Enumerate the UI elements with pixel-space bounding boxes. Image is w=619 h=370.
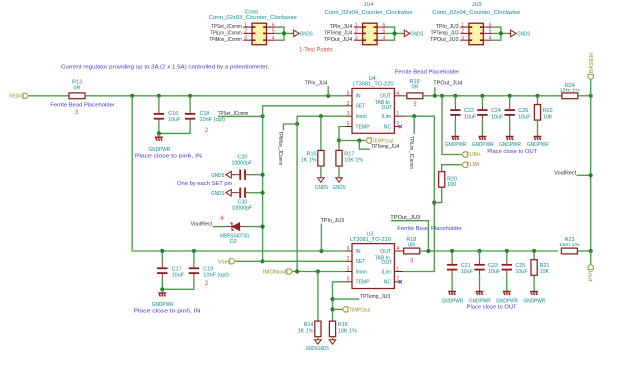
junction C19 tap: [192, 249, 196, 253]
JU3 pin 4 stub: [483, 39, 491, 41]
junction TEMP2out: [330, 307, 334, 311]
junction TPIn_JU4: [326, 94, 330, 98]
svg-text:TPiMon_JComm: TPiMon_JComm: [277, 131, 283, 165]
capacitor C26: [505, 106, 515, 120]
svg-text:TEMP: TEMP: [356, 280, 371, 286]
svg-text:4: 4: [220, 215, 224, 222]
svg-text:10K 1%: 10K 1%: [344, 158, 363, 164]
wire OUT rail bottom: [420, 250, 558, 252]
junction Imon chain top: [295, 122, 299, 126]
JU4 pin 6 stub: [377, 26, 385, 28]
wire C23 bottom: [479, 274, 481, 291]
power symbol GNDPWR (C25): [503, 292, 511, 296]
power symbol GNDPWR (pin6 IN, U3): [158, 293, 166, 297]
wire TPTemp_JU4: [359, 141, 370, 150]
U3 pin 4 stub: [394, 250, 403, 252]
JU3 pin 6 stub: [483, 26, 491, 28]
svg-text:IN: IN: [356, 94, 361, 100]
svg-text:Conn_02x03_Counter_Clockwise: Conn_02x03_Counter_Clockwise: [209, 15, 297, 21]
svg-text:C23: C23: [488, 263, 498, 269]
U4 pin 5 stub: [345, 126, 352, 128]
JU4 GNDS flag stub: [402, 32, 405, 34]
svg-text:0R: 0R: [408, 243, 415, 249]
connector JComm1 body: [252, 23, 267, 45]
svg-text:GNDPWR: GNDPWR: [442, 298, 464, 304]
junction SET net: [261, 114, 265, 118]
junction C17 tap: [160, 249, 164, 253]
U4 pin 4 stub: [394, 95, 403, 97]
junction TPOut_JU4: [433, 94, 437, 98]
svg-text:2: 2: [205, 280, 209, 287]
global label BASEIn flag: [588, 74, 593, 80]
JU3 pin 5 stub: [483, 32, 491, 34]
svg-text:Ferrite Bead Placeholder: Ferrite Bead Placeholder: [50, 102, 115, 108]
svg-text:1-Test Points: 1-Test Points: [299, 47, 333, 54]
GNDS flag of JComm1: [294, 30, 300, 37]
svg-text:Conn_02x04_Counter_Clockwise: Conn_02x04_Counter_Clockwise: [325, 10, 413, 16]
capacitor C21: [447, 260, 457, 274]
wire C21 bottom: [451, 274, 453, 291]
svg-text:Place close to pin6, IN: Place close to pin6, IN: [135, 153, 202, 159]
svg-text:2: 2: [244, 29, 247, 35]
svg-text:GNDS: GNDS: [306, 346, 318, 352]
capacitor C30: [236, 188, 250, 198]
JComm1 pin 6 stub: [267, 26, 275, 28]
U4 pin 3 stub: [345, 115, 352, 117]
resistor R21: [531, 260, 537, 276]
junction C16-C18 gnd: [157, 131, 161, 135]
GNDS flag at C30: [226, 189, 232, 196]
svg-text:GNDPWR: GNDPWR: [524, 298, 546, 304]
power symbol GNDPWR (pin6 IN, U4): [155, 137, 163, 141]
wire R16 to GNDS: [332, 337, 334, 340]
wire U4 SET vertical chain: [263, 106, 345, 261]
svg-text:Current regulator providing up: Current regulator providing up to 3A (2 …: [61, 64, 269, 70]
svg-text:R16: R16: [338, 322, 348, 328]
svg-text:BASEIn: BASEIn: [589, 53, 595, 74]
svg-text:10uF: 10uF: [172, 272, 185, 278]
svg-text:GNDPWR: GNDPWR: [469, 298, 491, 304]
junction C22 tap: [453, 94, 457, 98]
junction Iout node: [589, 249, 593, 253]
svg-text:2: 2: [347, 101, 350, 107]
svg-text:NC: NC: [384, 124, 392, 130]
svg-text:10uF: 10uF: [488, 269, 501, 275]
JComm1 pin 3 stub: [243, 39, 252, 41]
svg-text:6: 6: [383, 22, 386, 28]
junction C16 tap: [157, 94, 161, 98]
svg-text:Place close to pin6, IN: Place close to pin6, IN: [134, 309, 201, 315]
global label TEMP2out flag: [342, 307, 348, 312]
svg-text:TPIn_JU3: TPIn_JU3: [436, 24, 459, 30]
svg-text:LT3081_TO-220: LT3081_TO-220: [350, 237, 391, 243]
svg-text:TPTemp_JU4: TPTemp_JU4: [371, 144, 399, 150]
wire C22 bottom: [454, 119, 456, 136]
svg-text:C20: C20: [237, 154, 247, 160]
svg-text:TPiLim_JComm: TPiLim_JComm: [210, 30, 242, 36]
svg-text:C22: C22: [464, 108, 474, 114]
svg-text:R22: R22: [543, 108, 553, 114]
junction left vertical: [130, 94, 134, 98]
wire TEMP2out: [333, 308, 342, 310]
svg-text:VoutRect: VoutRect: [554, 170, 576, 176]
resistor R14: [315, 321, 321, 337]
svg-text:10uF: 10uF: [464, 114, 477, 120]
svg-text:Place close to OUT: Place close to OUT: [487, 149, 538, 155]
wire SET row U3: [263, 260, 345, 262]
U3 pin 6 stub: [345, 250, 352, 252]
junction C30: [261, 191, 265, 195]
wire JU3 pins 6-4 join: [492, 27, 501, 40]
U4 pin 7 stub: [394, 126, 399, 128]
svg-text:100: 100: [447, 182, 456, 188]
svg-text:C26: C26: [518, 108, 528, 114]
svg-text:10uF: 10uF: [491, 114, 504, 120]
junction C18 tap: [188, 94, 192, 98]
wire JU4 pins 6-4 join: [385, 27, 394, 40]
junction JU4 GNDS net: [393, 31, 397, 35]
svg-text:10uF: 10uF: [461, 269, 474, 275]
wire JU4 pin5 to GNDS: [385, 32, 402, 34]
capacitor C25: [502, 260, 512, 274]
svg-text:GNDS: GNDS: [300, 31, 313, 37]
power symbol GNDPWR (C21): [448, 292, 456, 296]
wire C17 bottom: [161, 277, 163, 289]
wire VoutRect to D2: [213, 226, 226, 228]
svg-text:0R: 0R: [411, 85, 418, 91]
junction C24 tap: [480, 94, 484, 98]
svg-text:1K 1%: 1K 1%: [301, 158, 317, 164]
svg-text:3: 3: [410, 258, 414, 265]
JU4 pin 3 stub: [354, 39, 363, 41]
U4 pin 2 stub: [345, 105, 352, 107]
svg-text:GNDPWR: GNDPWR: [148, 147, 170, 153]
global label Iout flag: [588, 264, 593, 270]
svg-text:10K: 10K: [543, 114, 553, 120]
junction VoutRect: [589, 173, 593, 177]
power symbol GNDPWR (C24): [479, 137, 487, 141]
svg-text:NC: NC: [384, 280, 392, 286]
svg-text:VoutRect: VoutRect: [191, 222, 213, 228]
C30 left pin: [231, 192, 236, 194]
svg-text:10uF: 10uF: [168, 117, 181, 123]
junction TPTemp_JU3: [330, 297, 334, 301]
svg-text:GNDPWR: GNDPWR: [152, 302, 174, 308]
svg-text:5: 5: [383, 29, 386, 35]
global label REGin flag: [23, 93, 29, 98]
no-connect X U3 pin7: [399, 280, 402, 283]
svg-text:C21: C21: [461, 263, 471, 269]
svg-text:REGin: REGin: [9, 94, 23, 100]
wire D2 to SET vertical: [246, 226, 263, 228]
wire TPTemp_JU3: [333, 298, 360, 300]
junction D2: [261, 225, 265, 229]
junction R22 tap: [535, 94, 539, 98]
connector JU4 body: [363, 23, 378, 45]
svg-text:TPIn_JU3: TPIn_JU3: [321, 218, 345, 224]
wire C30 to SET: [249, 192, 262, 194]
wire to C18: [189, 96, 191, 110]
junction TPiLim: [412, 114, 416, 118]
svg-text:10K: 10K: [540, 269, 550, 275]
svg-text:5: 5: [272, 29, 275, 35]
GNDS flag under R15: [318, 178, 325, 183]
op-amp U4 LT3081 body: [352, 88, 394, 133]
power symbol GNDPWR (R21): [530, 292, 538, 296]
wire R14 to GNDS: [317, 337, 319, 340]
JU4 pin 1 stub: [354, 26, 363, 28]
svg-text:4: 4: [272, 35, 275, 41]
svg-text:10uF: 10uF: [515, 269, 528, 275]
svg-text:3: 3: [355, 35, 358, 41]
svg-text:10K 1%: 10K 1%: [338, 329, 357, 335]
svg-text:GNDPWR: GNDPWR: [445, 142, 467, 148]
wire JComm1 pin5 to GNDS: [275, 32, 292, 34]
junction C25 tap: [505, 249, 509, 253]
wire U4 Imon: [297, 116, 345, 124]
svg-text:OUT: OUT: [382, 260, 393, 266]
svg-text:IMONout: IMONout: [263, 270, 288, 276]
svg-text:TPTemp_JU4: TPTemp_JU4: [324, 30, 352, 36]
svg-text:SET: SET: [356, 104, 366, 110]
resistor R13: [69, 93, 85, 99]
wire OUT to R18: [402, 250, 405, 252]
wire to R15: [320, 116, 322, 150]
junction JU3 GNDS net: [499, 31, 503, 35]
wire to C17: [161, 251, 163, 264]
svg-text:GNDS: GNDS: [410, 31, 423, 37]
junction C20: [261, 173, 265, 177]
svg-text:10nF (opt): 10nF (opt): [200, 117, 226, 123]
svg-text:C24: C24: [491, 108, 501, 114]
resistor R17: [336, 150, 342, 166]
connector JU3 body: [469, 23, 484, 45]
wire OUT rail top: [423, 95, 562, 97]
resistor R20: [439, 172, 445, 188]
global label IMONout flag: [287, 269, 293, 274]
wire IN rail to U3: [132, 96, 345, 251]
svg-text:3: 3: [244, 35, 247, 41]
wire to R17: [338, 141, 340, 151]
wire OUT to R19: [403, 95, 407, 97]
power symbol GNDPWR (C26): [506, 137, 514, 141]
capacitor C17: [157, 264, 167, 278]
U3 pin 1 stub: [394, 271, 403, 273]
wire to GNDPWR 1: [158, 133, 160, 136]
svg-text:Iout: Iout: [586, 271, 592, 283]
svg-text:ILIM+: ILIM+: [468, 152, 481, 158]
junction R15 tap: [319, 114, 323, 118]
svg-text:ILIM-: ILIM-: [468, 162, 481, 168]
svg-text:Imon: Imon: [356, 269, 367, 275]
capacitor C19: [189, 264, 199, 278]
wire IN rail top: [85, 95, 345, 97]
wire TPiLim stub: [413, 116, 415, 134]
svg-text:Imon: Imon: [356, 114, 367, 120]
wire TPIn_JU4 stub: [327, 86, 329, 96]
wire C20 to SET: [249, 174, 262, 176]
U3 pin 2 stub: [345, 260, 352, 262]
capacitor C24: [477, 106, 487, 120]
capacitor C22: [450, 106, 460, 120]
junction TPTemp_JU4: [357, 138, 361, 142]
svg-text:TPiLim_JComm: TPiLim_JComm: [408, 136, 414, 169]
resistor R23: [561, 248, 577, 254]
resistor R18: [404, 248, 420, 254]
svg-text:3: 3: [75, 109, 79, 116]
svg-text:10nF (opt): 10nF (opt): [203, 272, 229, 278]
junction C17-C19 gnd: [160, 287, 164, 291]
wire R21 bottom: [533, 275, 535, 291]
wire to C22: [454, 96, 456, 106]
svg-text:6: 6: [489, 22, 492, 28]
wire to R21: [533, 251, 535, 260]
svg-text:OUT: OUT: [382, 105, 393, 111]
op-amp U3 LT3081 body: [352, 244, 394, 289]
wire C16 bottom: [158, 123, 160, 133]
svg-text:TPOut_JU4: TPOut_JU4: [433, 80, 462, 86]
junction C21 tap: [450, 249, 454, 253]
svg-text:4: 4: [383, 35, 386, 41]
svg-text:TPIn_JU4: TPIn_JU4: [305, 81, 328, 87]
svg-text:R21: R21: [540, 263, 550, 269]
C20 left pin: [231, 174, 236, 176]
wire U4 TEMP down: [339, 127, 345, 141]
svg-text:TPTemp_JU3: TPTemp_JU3: [431, 30, 459, 36]
svg-text:One by each SET pin: One by each SET pin: [177, 181, 232, 187]
svg-text:Ferrite Bead Placeholder: Ferrite Bead Placeholder: [395, 69, 460, 75]
svg-text:6: 6: [347, 246, 350, 252]
wire R20 top to ILIM-: [442, 165, 462, 172]
svg-text:6: 6: [347, 91, 350, 97]
svg-text:2: 2: [461, 29, 464, 35]
svg-text:GNDS: GNDS: [315, 185, 328, 191]
JU4 pin 2 stub: [354, 32, 363, 34]
svg-text:0R: 0R: [74, 85, 81, 91]
svg-text:4: 4: [489, 35, 492, 41]
svg-text:R15: R15: [307, 151, 317, 157]
wire ILIM+: [442, 96, 461, 155]
wire C25 bottom: [506, 274, 508, 291]
svg-text:GNDS: GNDS: [318, 346, 330, 352]
svg-text:GNDPWR: GNDPWR: [472, 142, 494, 148]
capacitor C20: [236, 170, 250, 180]
svg-text:IN: IN: [356, 249, 361, 255]
wire to R22: [537, 96, 539, 105]
svg-text:C25: C25: [515, 263, 525, 269]
svg-text:10000pF: 10000pF: [231, 205, 252, 211]
junction R14 tap: [316, 269, 320, 273]
wire to C23: [479, 251, 481, 261]
junction C23 tap: [477, 249, 481, 253]
junction BASEIn node: [589, 94, 593, 98]
wire to GNDPWR 2: [161, 289, 163, 292]
JComm1 pin 2 stub: [243, 32, 252, 34]
svg-text:GNDS: GNDS: [211, 173, 225, 179]
capacitor C16: [154, 110, 164, 124]
wire C26 bottom: [509, 119, 511, 136]
wire U3 TEMP down: [333, 282, 346, 321]
capacitor C18: [185, 110, 195, 124]
svg-text:TPTemp_JU3: TPTemp_JU3: [360, 294, 390, 300]
U4 pin 1 stub: [394, 115, 403, 117]
U3 pin 3 stub: [345, 271, 352, 273]
wire R23 to Iout node: [577, 250, 590, 252]
resistor R15: [318, 150, 324, 166]
wire C24 bottom: [481, 119, 483, 136]
JU3 GNDS flag stub: [508, 32, 511, 34]
wire R17 to GNDS: [338, 166, 340, 178]
svg-text:15m 1%: 15m 1%: [560, 87, 581, 93]
svg-text:TPOut_JU3: TPOut_JU3: [430, 37, 459, 43]
svg-text:OUT: OUT: [380, 94, 391, 100]
GNDS flag of JU4: [404, 30, 410, 37]
svg-text:GNDS: GNDS: [333, 185, 346, 191]
wire to C24: [481, 96, 483, 106]
svg-text:OUT: OUT: [380, 249, 391, 255]
JComm1 pin 1 stub: [243, 26, 252, 28]
U3 pin 5 stub: [345, 281, 352, 283]
wire to C16: [158, 96, 160, 110]
wire R20 bottom: [434, 187, 441, 202]
no-connect X U4 pin7: [399, 125, 402, 128]
svg-text:LT3081_TO-220: LT3081_TO-220: [353, 82, 394, 88]
wire TPOut_JU4 stub: [434, 87, 436, 96]
svg-text:R17: R17: [344, 151, 354, 157]
svg-text:GNDPWR: GNDPWR: [527, 142, 549, 148]
svg-text:3: 3: [413, 101, 417, 108]
junction Imon chain bottom: [295, 269, 299, 273]
global label ILIM- flag: [462, 162, 468, 167]
wire TPiMon stub: [283, 124, 297, 130]
wire to C21: [451, 251, 453, 261]
wire REGin to R13: [29, 95, 69, 97]
wire to C25: [506, 251, 508, 261]
JComm1 GNDS flag stub: [292, 32, 295, 34]
svg-text:5: 5: [489, 29, 492, 35]
wire JU3 pin5 to GNDS: [492, 32, 509, 34]
junction TPOut_JU3: [426, 249, 430, 253]
junction JComm1 GNDS net: [282, 31, 286, 35]
svg-text:GNDS: GNDS: [517, 31, 530, 37]
wire Imon chain vertical: [296, 124, 298, 272]
wire right vertical: [590, 96, 592, 251]
svg-text:6: 6: [272, 22, 275, 28]
wire R24 to BASEIn node: [578, 95, 591, 97]
junction TPIn_JU3: [319, 249, 323, 253]
GNDS flag at C20: [226, 171, 232, 178]
svg-text:2: 2: [355, 29, 358, 35]
svg-text:SET: SET: [356, 259, 366, 265]
svg-text:1K 1%: 1K 1%: [298, 329, 314, 335]
junction R20 bottom: [432, 201, 436, 205]
svg-text:ILim: ILim: [381, 269, 391, 275]
svg-text:GNDS: GNDS: [211, 191, 225, 197]
junction C26 tap: [508, 94, 512, 98]
junction ILIM+ tap: [440, 94, 444, 98]
junction TEMP R17: [337, 138, 341, 142]
JU3 pin 3 stub: [460, 39, 469, 41]
wire R15 to GNDS: [320, 166, 322, 178]
wire Iout stub: [590, 251, 592, 264]
JU3 pin 1 stub: [460, 26, 469, 28]
power symbol GNDPWR (C23): [476, 292, 484, 296]
svg-text:15m 1%: 15m 1%: [559, 242, 580, 248]
wire TPOut_JU3: [391, 221, 429, 251]
svg-text:1: 1: [461, 22, 464, 28]
wire TEMP to TEMP1out: [339, 140, 365, 142]
power symbol GNDPWR (C22): [452, 137, 460, 141]
